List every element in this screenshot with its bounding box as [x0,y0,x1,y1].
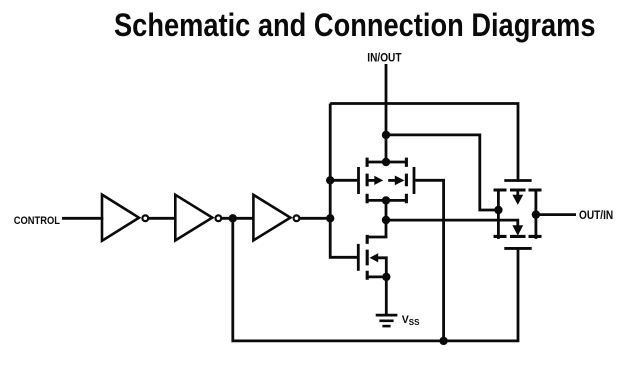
svg-text:VSS: VSS [402,314,420,327]
svg-text:CONTROL: CONTROL [14,215,61,227]
svg-text:Schematic and Connection Diagr: Schematic and Connection Diagrams [114,7,596,43]
svg-text:IN/OUT: IN/OUT [367,53,401,65]
svg-text:OUT/IN: OUT/IN [579,210,613,222]
